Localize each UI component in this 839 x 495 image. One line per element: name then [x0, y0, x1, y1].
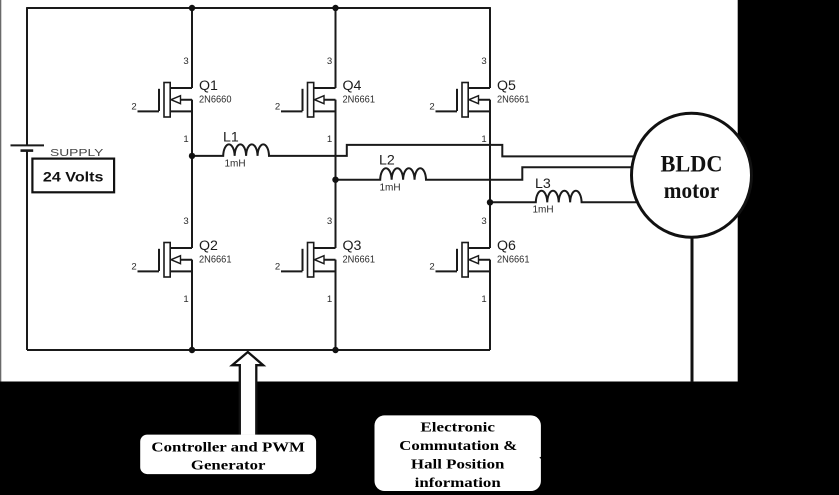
svg-text:Commutation &: Commutation & — [399, 438, 517, 453]
svg-text:Q6: Q6 — [497, 238, 516, 254]
black bottom band — [0, 382, 839, 495]
svg-text:3: 3 — [183, 216, 188, 227]
svg-text:1mH: 1mH — [225, 159, 246, 170]
node phase C junction — [487, 199, 493, 205]
svg-text:3: 3 — [481, 216, 486, 227]
svg-text:3: 3 — [327, 56, 332, 67]
node junction top rail1 — [189, 5, 195, 11]
wire rail1 drain segment — [191, 7, 193, 88]
transistor Q3 — [275, 216, 376, 305]
svg-text:2: 2 — [429, 102, 434, 113]
svg-text:Controller and PWM: Controller and PWM — [151, 440, 305, 455]
svg-text:Electronic: Electronic — [420, 420, 495, 435]
svg-text:Q2: Q2 — [199, 238, 218, 254]
svg-text:BLDC: BLDC — [661, 152, 723, 177]
wire rail2 mid segment — [335, 100, 337, 248]
svg-text:2: 2 — [429, 262, 434, 273]
wire rail2 drain segment — [335, 7, 337, 88]
inductor L1 — [192, 130, 635, 170]
commutation feedback arrowhead — [539, 453, 546, 462]
transistor Q2 — [131, 216, 232, 305]
supply value box 24 Volts — [32, 159, 114, 193]
svg-text:Q4: Q4 — [343, 78, 362, 94]
svg-text:Q5: Q5 — [497, 78, 516, 94]
node junction top rail2 — [332, 5, 338, 11]
node junction bottom rail2 — [332, 347, 338, 353]
node junction bottom rail1 — [189, 347, 195, 353]
transistor Q6 — [429, 216, 530, 305]
transistor Q5 — [429, 56, 530, 145]
inductor L3 — [490, 176, 638, 216]
svg-text:1: 1 — [327, 294, 332, 305]
svg-text:24 Volts: 24 Volts — [43, 168, 104, 184]
svg-text:1: 1 — [327, 134, 332, 145]
wire rail1 lower segment — [191, 260, 193, 350]
svg-text:2: 2 — [131, 102, 136, 113]
left edge line — [0, 0, 1, 382]
svg-text:3: 3 — [183, 56, 188, 67]
transistor Q1 — [131, 56, 232, 145]
svg-text:2N6661: 2N6661 — [497, 95, 530, 106]
controller block — [140, 435, 316, 475]
svg-text:2N6660: 2N6660 — [199, 95, 232, 106]
svg-text:Q3: Q3 — [343, 238, 362, 254]
svg-text:3: 3 — [481, 56, 486, 67]
wire rail3 drain segment — [489, 7, 491, 88]
svg-text:L1: L1 — [223, 130, 239, 146]
battery V1 long plate — [11, 144, 45, 146]
svg-text:1: 1 — [481, 294, 486, 305]
wire rail3 lower segment — [489, 260, 491, 350]
svg-text:Q1: Q1 — [199, 78, 218, 94]
svg-text:Generator: Generator — [191, 458, 266, 473]
svg-text:2: 2 — [275, 262, 280, 273]
wire motor shaft feedback — [691, 237, 694, 383]
svg-text:2: 2 — [275, 102, 280, 113]
svg-text:1: 1 — [481, 134, 486, 145]
arrow control input — [232, 352, 263, 436]
BLDC motor M1 — [632, 113, 752, 237]
wire top bus — [27, 7, 490, 9]
wire left rail upper — [26, 7, 28, 145]
svg-text:2: 2 — [131, 262, 136, 273]
svg-text:1mH: 1mH — [533, 205, 554, 216]
svg-text:2N6661: 2N6661 — [497, 255, 530, 266]
wire rail3 mid segment — [489, 100, 491, 248]
svg-text:Hall Position: Hall Position — [411, 456, 505, 471]
svg-text:3: 3 — [327, 216, 332, 227]
commutation block — [375, 415, 541, 491]
transistor Q4 — [275, 56, 376, 145]
svg-text:1: 1 — [183, 294, 188, 305]
svg-text:L3: L3 — [535, 176, 551, 192]
black side band — [738, 0, 839, 495]
svg-text:L2: L2 — [379, 153, 395, 169]
svg-text:2N6661: 2N6661 — [343, 95, 376, 106]
inductor L2 — [336, 153, 633, 194]
svg-text:information: information — [415, 475, 502, 490]
node phase B junction — [332, 177, 338, 183]
svg-text:2N6661: 2N6661 — [343, 255, 376, 266]
wire left rail lower — [26, 151, 28, 350]
node phase A junction — [189, 153, 195, 159]
wire rail2 lower segment — [335, 260, 337, 350]
svg-text:1: 1 — [183, 134, 188, 145]
wire bottom bus — [27, 349, 490, 351]
svg-text:2N6661: 2N6661 — [199, 255, 232, 266]
svg-text:motor: motor — [664, 178, 720, 203]
battery V1 short plate — [21, 149, 34, 152]
wire rail1 mid segment — [191, 100, 193, 248]
svg-text:SUPPLY: SUPPLY — [50, 147, 103, 159]
svg-text:1mH: 1mH — [380, 183, 401, 194]
